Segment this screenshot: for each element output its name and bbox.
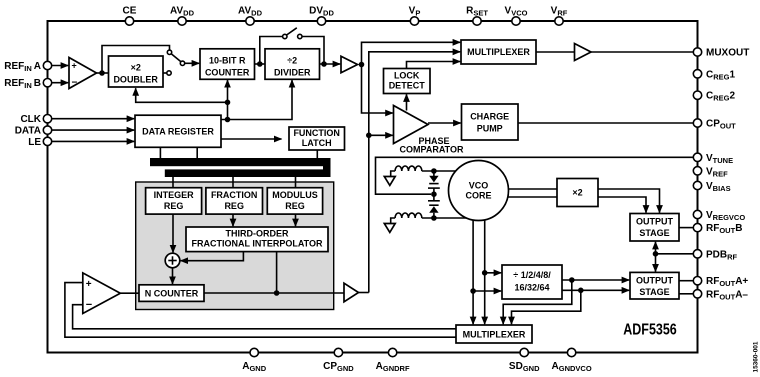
buffer reference bbox=[341, 56, 358, 72]
switch lever bbox=[287, 28, 297, 35]
svg-text:REG: REG bbox=[164, 201, 184, 211]
chip outline border bbox=[48, 21, 698, 353]
wire buffer output up bbox=[359, 292, 369, 294]
svg-text:COUNTER: COUNTER bbox=[205, 68, 250, 78]
pin PDB RF bbox=[693, 250, 701, 258]
wire PDB vertical up arrow bbox=[655, 242, 657, 254]
buffer feedback bbox=[344, 283, 359, 302]
bus bar lower bbox=[165, 169, 331, 177]
wire RF divider to output stage A upper bbox=[562, 279, 629, 281]
wire fraction reg to interpolator bbox=[232, 214, 234, 226]
register data register bbox=[135, 115, 221, 147]
multiplier doubler x2 bbox=[109, 56, 164, 87]
node varactor top bbox=[431, 168, 437, 174]
pin RSET bbox=[473, 17, 481, 25]
svg-text:VRF: VRF bbox=[551, 6, 568, 18]
wire tap to RF divider input 1 bbox=[485, 272, 502, 274]
svg-text:FUNCTION: FUNCTION bbox=[293, 128, 340, 138]
wire feedback to multiplexer input 2 bbox=[369, 52, 460, 293]
wire tap to RF divider input 2 bbox=[473, 290, 501, 292]
svg-text:FRACTIONAL INTERPOLATOR: FRACTIONAL INTERPOLATOR bbox=[192, 239, 323, 249]
divider RF 1/2/4/8/16/32/64 bbox=[502, 265, 562, 299]
pin MUXOUT bbox=[693, 48, 701, 56]
svg-text:RSET: RSET bbox=[466, 6, 488, 18]
svg-text:VREGVCO: VREGVCO bbox=[706, 210, 745, 222]
svg-text:VVCO: VVCO bbox=[505, 6, 528, 18]
svg-text:REFIN A: REFIN A bbox=[4, 61, 41, 73]
pin VTUNE bbox=[693, 153, 701, 161]
pin AVDD (left) bbox=[178, 17, 186, 25]
svg-text:AVDD: AVDD bbox=[238, 6, 263, 18]
wire output stage A to RFOUT A+ bbox=[679, 280, 693, 282]
node branch lower bbox=[578, 288, 584, 294]
pin SDGND bbox=[520, 348, 528, 356]
svg-text:REG: REG bbox=[224, 201, 244, 211]
svg-text:COMPARATOR: COMPARATOR bbox=[400, 145, 464, 155]
svg-text:LATCH: LATCH bbox=[302, 138, 332, 148]
wire VCO to x2 upper bbox=[508, 188, 557, 190]
node clock tap bbox=[274, 290, 280, 296]
svg-text:×2: ×2 bbox=[572, 188, 582, 198]
multiplexer top bbox=[461, 40, 536, 64]
svg-text:AGND: AGND bbox=[242, 361, 266, 373]
svg-text:PUMP: PUMP bbox=[477, 124, 503, 134]
svg-text:STAGE: STAGE bbox=[639, 287, 669, 297]
svg-text:ADF5356: ADF5356 bbox=[623, 322, 677, 339]
svg-text:DATA REGISTER: DATA REGISTER bbox=[142, 127, 214, 137]
wire interpolator clock tap bbox=[276, 252, 278, 293]
multiplexer bottom bbox=[456, 325, 532, 343]
pin VREGVCO bbox=[693, 210, 701, 218]
node ref buffer output bbox=[359, 62, 365, 68]
oscillator VCO core bbox=[449, 161, 509, 221]
wire PDB RF to stages bbox=[656, 253, 694, 255]
svg-text:REFIN B: REFIN B bbox=[4, 78, 41, 90]
svg-text:−: − bbox=[72, 78, 78, 89]
wire N counter to buffer bbox=[204, 292, 344, 294]
wire bus to modulus reg bbox=[295, 177, 297, 188]
svg-text:AVDD: AVDD bbox=[170, 6, 195, 18]
wire ref to multiplexer input 1 bbox=[362, 42, 461, 64]
detector lock detect bbox=[384, 69, 431, 94]
wire amp output to doubler bbox=[97, 72, 109, 74]
node branch upper bbox=[569, 277, 575, 283]
register integer reg bbox=[146, 188, 202, 214]
switch doubler-bypass contact top bbox=[167, 50, 171, 54]
wire data register to function latch bbox=[221, 138, 282, 140]
svg-text:DIVIDER: DIVIDER bbox=[274, 68, 311, 78]
svg-text:CREG2: CREG2 bbox=[706, 91, 736, 103]
pin AVDD (right) bbox=[246, 17, 254, 25]
register modulus reg bbox=[267, 188, 322, 214]
wire inductor bottom to VCO bbox=[422, 217, 469, 219]
wire lock detect to multiplexer input 3 bbox=[407, 62, 461, 69]
svg-text:CREG1: CREG1 bbox=[706, 69, 736, 81]
node tap divider input 1 bbox=[482, 270, 488, 276]
wire PDB vertical down arrow bbox=[655, 254, 657, 272]
wire feedback to phase comparator input 2 bbox=[369, 134, 393, 136]
svg-text:N COUNTER: N COUNTER bbox=[145, 288, 199, 298]
wire charge pump to CPOUT bbox=[518, 122, 693, 124]
wire doubler bypass bbox=[102, 46, 170, 74]
buffer muxout bbox=[575, 44, 592, 61]
bus bar right merge bbox=[323, 158, 331, 177]
wire VCO down left to mux bbox=[472, 220, 474, 324]
svg-text:÷2: ÷2 bbox=[287, 56, 297, 66]
op-amp N divider input bbox=[83, 273, 121, 314]
latch function latch bbox=[289, 127, 345, 150]
pin VRF bbox=[555, 17, 563, 25]
pin LE bbox=[43, 137, 51, 145]
varactor diode lower bbox=[433, 194, 435, 201]
pin AGNDVCO bbox=[567, 348, 575, 356]
svg-text:CPOUT: CPOUT bbox=[706, 119, 736, 131]
svg-text:+: + bbox=[86, 279, 92, 290]
node control junction 1 bbox=[225, 100, 231, 106]
svg-text:DVDD: DVDD bbox=[309, 6, 334, 18]
svg-text:MODULUS: MODULUS bbox=[272, 190, 318, 200]
pin DVDD bbox=[317, 17, 325, 25]
node R counter output bbox=[257, 61, 263, 67]
wire VCO down right to mux bbox=[484, 220, 486, 324]
node control junction 2 bbox=[225, 117, 231, 123]
switch doubler output contact bbox=[163, 72, 167, 74]
node divider output bbox=[321, 61, 327, 67]
svg-text:LE: LE bbox=[28, 137, 41, 148]
svg-text:THIRD-ORDER: THIRD-ORDER bbox=[226, 229, 289, 239]
divider /2 bbox=[265, 49, 320, 80]
multiplier x2 bbox=[557, 179, 598, 207]
counter 10-bit R bbox=[200, 49, 255, 80]
wire integer reg to summing node bbox=[172, 214, 174, 252]
svg-text:10-BIT R: 10-BIT R bbox=[209, 56, 246, 66]
switch divider-bypass contact right bbox=[298, 34, 302, 38]
svg-text:PDBRF: PDBRF bbox=[706, 249, 738, 261]
switch divider-bypass contact left bbox=[283, 34, 287, 38]
amplifier output stage A bbox=[630, 272, 679, 299]
node tap divider input 2 bbox=[470, 288, 476, 294]
amplifier output stage B bbox=[630, 214, 679, 242]
wire bus to integer reg bbox=[172, 177, 174, 188]
pin AGND bbox=[250, 348, 258, 356]
wire VTUNE trace bbox=[376, 157, 694, 194]
wire data register to bus (right) bbox=[196, 147, 198, 158]
svg-text:RFOUTA–: RFOUTA– bbox=[706, 289, 748, 301]
node PDB junction bbox=[653, 251, 659, 257]
varactor diode upper bbox=[433, 171, 435, 176]
wire modulus reg to interpolator bbox=[295, 214, 297, 226]
wire CLK to data register bbox=[52, 118, 134, 120]
svg-text:AGNDRF: AGNDRF bbox=[376, 361, 410, 373]
wire bus to fraction reg bbox=[232, 177, 234, 188]
wire buffer to MUXOUT bbox=[591, 51, 693, 53]
svg-text:INTEGER: INTEGER bbox=[154, 190, 195, 200]
pin CE bbox=[125, 17, 133, 25]
interpolator third-order fractional interpolator bbox=[186, 227, 328, 252]
node amp output junction bbox=[99, 70, 105, 76]
svg-text:CLK: CLK bbox=[20, 114, 41, 125]
svg-text:STAGE: STAGE bbox=[639, 228, 669, 238]
switch lever bbox=[171, 54, 181, 62]
pin CREG1 bbox=[693, 70, 701, 78]
pump charge pump bbox=[462, 104, 519, 140]
svg-text:REG: REG bbox=[285, 201, 305, 211]
svg-text:VCO: VCO bbox=[469, 181, 489, 191]
pin VBIAS bbox=[693, 181, 701, 189]
wire REFIN A to input amp bbox=[52, 65, 68, 67]
wire R counter to divider bbox=[255, 63, 266, 65]
svg-text:CHARGE: CHARGE bbox=[470, 112, 509, 122]
pin DATA bbox=[43, 126, 51, 134]
svg-text:RFOUTA+: RFOUTA+ bbox=[706, 276, 748, 288]
wire function latch to bus bbox=[316, 150, 318, 159]
comparator phase comparator bbox=[394, 106, 429, 144]
svg-text:LOCK: LOCK bbox=[394, 71, 420, 81]
wire LE to data register bbox=[52, 140, 134, 142]
svg-text:VP: VP bbox=[409, 6, 421, 18]
wire output stage A to RFOUT A- bbox=[679, 293, 693, 295]
svg-text:+: + bbox=[72, 61, 77, 71]
wire x2 to output stage B outer bbox=[598, 189, 660, 213]
wire control from data register to divider bbox=[221, 80, 292, 119]
wire branch lower to mux bbox=[512, 290, 581, 324]
svg-text:OUTPUT: OUTPUT bbox=[636, 276, 674, 286]
svg-text:SDGND: SDGND bbox=[509, 361, 540, 373]
wire data register to bus (left) bbox=[159, 147, 161, 158]
svg-text:VBIAS: VBIAS bbox=[706, 181, 731, 193]
inductor tank bottom bbox=[395, 213, 422, 218]
pin CREG2 bbox=[693, 91, 701, 99]
svg-text:OUTPUT: OUTPUT bbox=[636, 217, 674, 227]
wire control to R counter bbox=[227, 80, 229, 119]
pin CPOUT bbox=[693, 119, 701, 127]
svg-text:DETECT: DETECT bbox=[389, 81, 426, 91]
svg-text:AGNDVCO: AGNDVCO bbox=[552, 361, 592, 373]
svg-text:DATA: DATA bbox=[15, 126, 41, 137]
wire summing node to N counter bbox=[172, 268, 174, 284]
pin VP bbox=[410, 17, 418, 25]
wire x2 to output stage B inner bbox=[598, 197, 646, 213]
ground tank bottom bbox=[391, 218, 395, 224]
op-amp reference input buffer bbox=[69, 58, 97, 89]
sigma-delta block (gray) bbox=[136, 182, 334, 310]
wire branch upper to mux bbox=[503, 280, 572, 324]
summing node bbox=[165, 253, 180, 268]
wire amp to N counter bbox=[120, 292, 139, 294]
wire output stage B to RFOUTB bbox=[679, 227, 693, 229]
ground tank top bbox=[391, 171, 395, 177]
svg-text:×2: ×2 bbox=[131, 63, 141, 73]
wire phase comparator to lock detect bbox=[406, 94, 408, 110]
svg-text:DOUBLER: DOUBLER bbox=[113, 75, 158, 85]
svg-text:CPGND: CPGND bbox=[323, 361, 354, 373]
svg-text:15360-001: 15360-001 bbox=[753, 341, 760, 372]
wire mux feedback outer to amp plus bbox=[65, 283, 456, 338]
bus bar upper bbox=[150, 158, 331, 166]
wire control to doubler bbox=[136, 88, 228, 102]
switch doubler-bypass contact mid bbox=[180, 61, 184, 65]
pin VREF bbox=[693, 167, 701, 175]
wire multiplexer to buffer bbox=[536, 51, 575, 53]
wire ref to phase comparator input 1 bbox=[362, 65, 393, 114]
svg-text:CORE: CORE bbox=[465, 191, 491, 201]
svg-text:CE: CE bbox=[123, 6, 137, 17]
wire divider bypass right bbox=[302, 37, 324, 65]
svg-text:16/32/64: 16/32/64 bbox=[514, 283, 549, 293]
pin AGNDRF bbox=[388, 348, 396, 356]
wire REFIN B to input amp bbox=[52, 82, 68, 84]
wire RF divider to output stage A lower bbox=[562, 289, 629, 291]
svg-text:MUXOUT: MUXOUT bbox=[706, 48, 749, 59]
wire interpolator to summing node bbox=[181, 252, 244, 261]
wire DATA to data register bbox=[52, 129, 134, 131]
pin CLK bbox=[43, 115, 51, 123]
wire mux feedback inner to amp minus bbox=[73, 305, 456, 329]
node feedback tap bbox=[366, 133, 372, 139]
pin REFIN A bbox=[43, 61, 51, 69]
pin CPGND bbox=[334, 348, 342, 356]
svg-text:RFOUTB: RFOUTB bbox=[706, 223, 742, 235]
pin REFIN B bbox=[43, 79, 51, 87]
pin VVCO bbox=[512, 17, 520, 25]
counter N counter bbox=[139, 285, 204, 302]
svg-text:FRACTION: FRACTION bbox=[211, 190, 258, 200]
svg-text:−: − bbox=[86, 299, 92, 311]
node varactor bottom bbox=[431, 215, 437, 221]
wire divider output to ref buffer bbox=[320, 63, 341, 65]
svg-text:MULTIPLEXER: MULTIPLEXER bbox=[463, 329, 526, 339]
inductor tank top bbox=[395, 166, 422, 171]
svg-text:VTUNE: VTUNE bbox=[706, 153, 733, 165]
wire switch to R counter bbox=[185, 62, 200, 64]
svg-text:MULTIPLEXER: MULTIPLEXER bbox=[467, 47, 530, 57]
wire VCO to x2 lower bbox=[508, 196, 557, 198]
wire divider bypass left bbox=[260, 37, 283, 65]
wire inductor to VCO bbox=[422, 170, 457, 172]
node varactor mid VTUNE bbox=[431, 191, 437, 197]
pin RFOUT A- bbox=[693, 290, 701, 298]
wire phase comparator to charge pump bbox=[428, 122, 461, 124]
register fraction reg bbox=[206, 188, 263, 214]
svg-text:÷ 1/2/4/8/: ÷ 1/2/4/8/ bbox=[513, 270, 551, 280]
pin RFOUT B bbox=[693, 223, 701, 231]
pin RFOUT A+ bbox=[693, 277, 701, 285]
svg-text:VREF: VREF bbox=[706, 166, 728, 178]
